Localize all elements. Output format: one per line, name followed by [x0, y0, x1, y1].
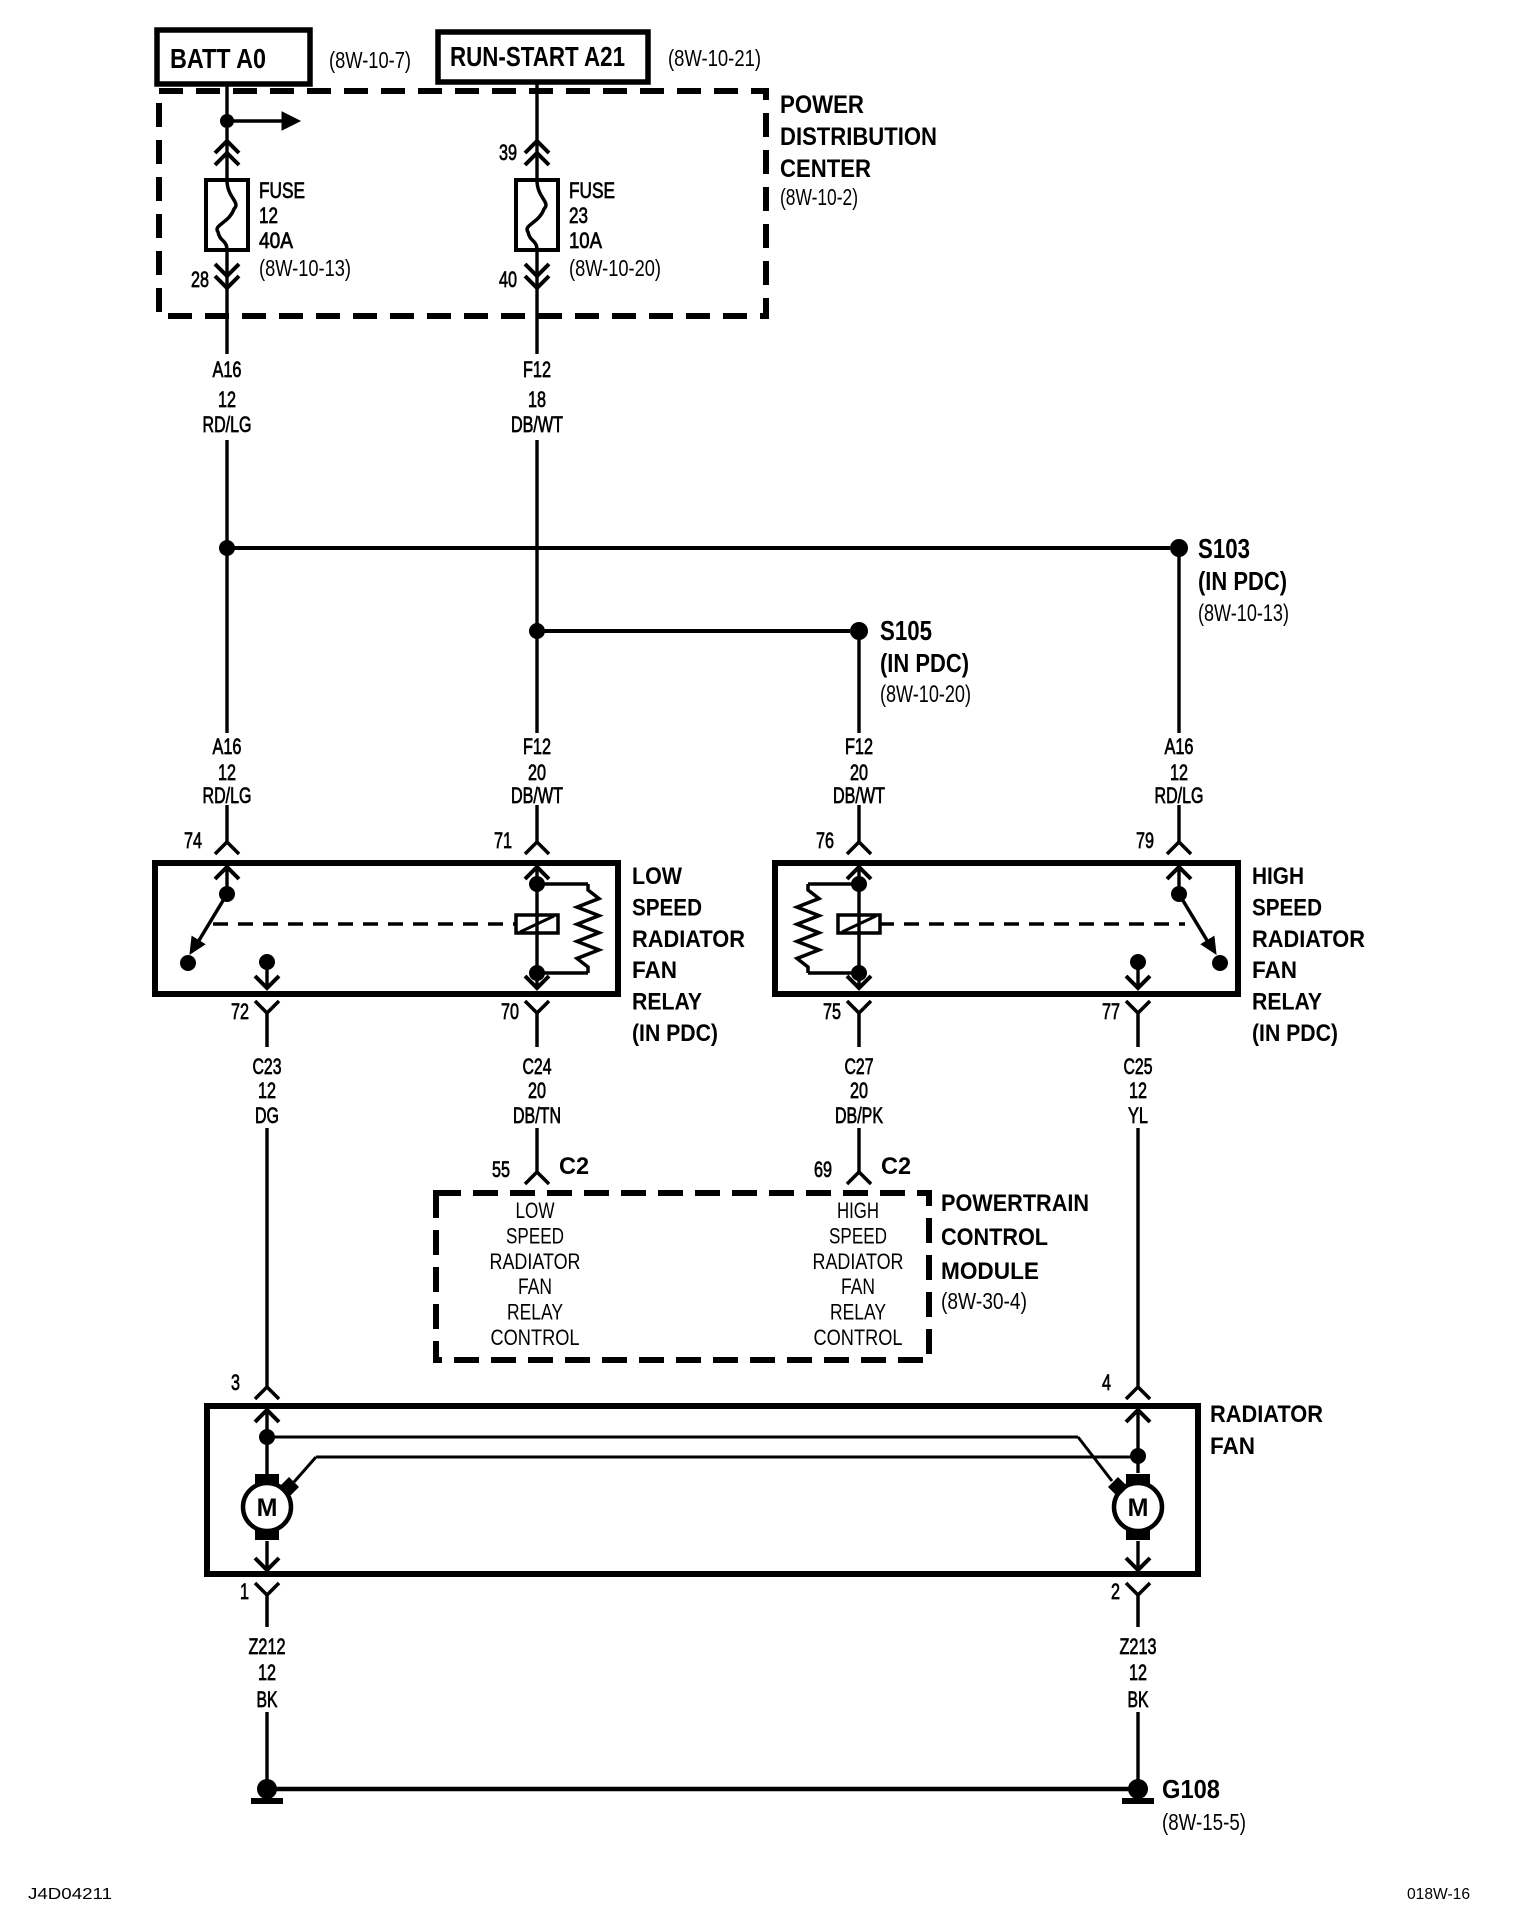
svg-text:A16: A16 — [1165, 734, 1194, 759]
svg-text:FAN: FAN — [841, 1274, 875, 1299]
svg-text:C2: C2 — [881, 1153, 911, 1180]
svg-text:79: 79 — [1136, 828, 1154, 853]
svg-text:FAN: FAN — [1252, 957, 1297, 984]
svg-text:S105: S105 — [880, 615, 932, 646]
svg-text:RD/LG: RD/LG — [203, 412, 252, 437]
svg-text:BATT A0: BATT A0 — [170, 43, 266, 74]
svg-text:55: 55 — [492, 1157, 510, 1182]
svg-text:20: 20 — [850, 760, 868, 785]
svg-text:74: 74 — [184, 828, 202, 853]
svg-text:C27: C27 — [845, 1054, 874, 1079]
svg-text:DISTRIBUTION: DISTRIBUTION — [780, 123, 937, 151]
svg-text:C23: C23 — [253, 1054, 282, 1079]
svg-text:FUSE: FUSE — [569, 178, 615, 203]
svg-text:LOW: LOW — [516, 1198, 555, 1223]
svg-text:G108: G108 — [1162, 1774, 1220, 1804]
svg-text:12: 12 — [259, 203, 278, 228]
svg-text:CENTER: CENTER — [780, 155, 871, 183]
svg-text:F12: F12 — [523, 734, 551, 759]
svg-text:CONTROL: CONTROL — [814, 1325, 903, 1350]
svg-text:C24: C24 — [523, 1054, 552, 1079]
svg-text:RADIATOR: RADIATOR — [490, 1249, 581, 1274]
svg-text:SPEED: SPEED — [1252, 894, 1322, 921]
svg-text:20: 20 — [528, 1078, 546, 1103]
svg-text:YL: YL — [1128, 1103, 1148, 1128]
svg-text:RELAY: RELAY — [830, 1300, 886, 1325]
svg-text:12: 12 — [258, 1660, 276, 1685]
svg-text:BK: BK — [1128, 1687, 1149, 1712]
svg-text:M: M — [1128, 1494, 1149, 1522]
svg-text:(IN PDC): (IN PDC) — [632, 1020, 718, 1047]
svg-text:RADIATOR: RADIATOR — [632, 926, 745, 953]
svg-text:(IN PDC): (IN PDC) — [1252, 1020, 1338, 1047]
svg-text:HIGH: HIGH — [837, 1198, 879, 1223]
svg-text:SPEED: SPEED — [632, 894, 702, 921]
svg-text:FAN: FAN — [518, 1274, 552, 1299]
svg-text:SPEED: SPEED — [829, 1223, 887, 1248]
svg-text:FUSE: FUSE — [259, 178, 305, 203]
svg-text:28: 28 — [191, 267, 209, 292]
svg-text:12: 12 — [1170, 760, 1188, 785]
svg-text:12: 12 — [1129, 1078, 1147, 1103]
svg-text:12: 12 — [218, 760, 236, 785]
svg-text:FAN: FAN — [632, 957, 677, 984]
svg-text:S103: S103 — [1198, 533, 1250, 564]
svg-text:12: 12 — [1129, 1660, 1147, 1685]
svg-text:RD/LG: RD/LG — [203, 783, 252, 808]
svg-text:2: 2 — [1111, 1579, 1120, 1604]
svg-text:40A: 40A — [259, 228, 293, 253]
svg-text:RADIATOR: RADIATOR — [1252, 926, 1365, 953]
svg-text:Z213: Z213 — [1120, 1634, 1157, 1659]
svg-text:MODULE: MODULE — [941, 1258, 1039, 1285]
svg-text:(8W-10-2): (8W-10-2) — [780, 184, 858, 210]
svg-text:4: 4 — [1102, 1370, 1111, 1395]
svg-text:018W-16: 018W-16 — [1407, 1886, 1470, 1903]
svg-text:1: 1 — [240, 1579, 249, 1604]
svg-text:RADIATOR: RADIATOR — [1210, 1401, 1323, 1428]
svg-text:DB/WT: DB/WT — [833, 783, 885, 808]
svg-text:3: 3 — [231, 1370, 240, 1395]
svg-text:CONTROL: CONTROL — [941, 1224, 1048, 1251]
svg-text:DB/TN: DB/TN — [513, 1103, 561, 1128]
svg-text:77: 77 — [1102, 999, 1120, 1024]
svg-text:DB/WT: DB/WT — [511, 412, 563, 437]
svg-text:76: 76 — [816, 828, 834, 853]
svg-text:SPEED: SPEED — [506, 1223, 564, 1248]
svg-text:C25: C25 — [1124, 1054, 1153, 1079]
svg-text:(8W-15-5): (8W-15-5) — [1162, 1809, 1246, 1835]
svg-text:(8W-30-4): (8W-30-4) — [941, 1288, 1027, 1314]
svg-text:39: 39 — [499, 140, 517, 165]
svg-text:(8W-10-13): (8W-10-13) — [1198, 600, 1289, 627]
svg-text:RELAY: RELAY — [632, 989, 702, 1016]
svg-text:(8W-10-13): (8W-10-13) — [259, 255, 351, 281]
svg-text:(8W-10-7): (8W-10-7) — [329, 47, 411, 73]
svg-text:J4D04211: J4D04211 — [28, 1886, 112, 1903]
svg-text:POWER: POWER — [780, 91, 864, 119]
svg-text:(8W-10-21): (8W-10-21) — [668, 45, 761, 71]
svg-text:71: 71 — [494, 828, 512, 853]
svg-text:LOW: LOW — [632, 863, 682, 890]
svg-text:F12: F12 — [845, 734, 873, 759]
svg-text:HIGH: HIGH — [1252, 863, 1304, 890]
svg-text:CONTROL: CONTROL — [491, 1325, 580, 1350]
svg-text:C2: C2 — [559, 1153, 589, 1180]
svg-text:23: 23 — [569, 203, 588, 228]
svg-text:75: 75 — [823, 999, 841, 1024]
svg-text:M: M — [257, 1494, 278, 1522]
svg-text:BK: BK — [257, 1687, 278, 1712]
svg-text:A16: A16 — [213, 357, 242, 382]
svg-text:69: 69 — [814, 1157, 832, 1182]
svg-text:(8W-10-20): (8W-10-20) — [569, 255, 661, 281]
svg-text:Z212: Z212 — [249, 1634, 286, 1659]
svg-text:70: 70 — [501, 999, 519, 1024]
svg-text:FAN: FAN — [1210, 1433, 1255, 1460]
svg-text:RADIATOR: RADIATOR — [813, 1249, 904, 1274]
svg-text:20: 20 — [528, 760, 546, 785]
svg-text:RELAY: RELAY — [507, 1300, 563, 1325]
svg-text:20: 20 — [850, 1078, 868, 1103]
svg-text:10A: 10A — [569, 228, 602, 253]
svg-text:72: 72 — [231, 999, 249, 1024]
svg-text:POWERTRAIN: POWERTRAIN — [941, 1190, 1089, 1217]
svg-text:DB/WT: DB/WT — [511, 783, 563, 808]
svg-text:RD/LG: RD/LG — [1155, 783, 1204, 808]
svg-text:A16: A16 — [213, 734, 242, 759]
svg-text:F12: F12 — [523, 357, 551, 382]
svg-text:12: 12 — [218, 387, 236, 412]
svg-text:18: 18 — [528, 387, 546, 412]
svg-text:(IN PDC): (IN PDC) — [880, 648, 969, 678]
svg-text:(8W-10-20): (8W-10-20) — [880, 681, 971, 708]
svg-text:(IN PDC): (IN PDC) — [1198, 566, 1287, 596]
svg-text:DG: DG — [255, 1103, 279, 1128]
svg-text:DB/PK: DB/PK — [835, 1103, 883, 1128]
svg-text:40: 40 — [499, 267, 517, 292]
svg-text:RELAY: RELAY — [1252, 989, 1322, 1016]
svg-text:RUN-START A21: RUN-START A21 — [450, 41, 625, 72]
svg-text:12: 12 — [258, 1078, 276, 1103]
